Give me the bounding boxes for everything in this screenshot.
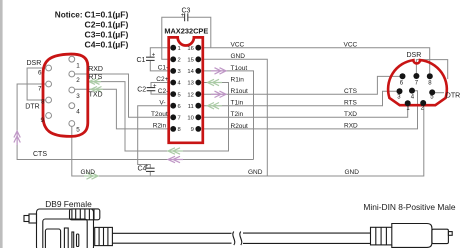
svg-text:RTS: RTS bbox=[88, 74, 102, 81]
svg-text:4: 4 bbox=[76, 109, 80, 116]
svg-text:+: + bbox=[152, 53, 156, 59]
svg-text:7: 7 bbox=[38, 86, 42, 93]
svg-text:9: 9 bbox=[41, 117, 45, 124]
svg-text:RTS: RTS bbox=[344, 99, 358, 106]
svg-text:12: 12 bbox=[187, 92, 193, 98]
svg-text:15: 15 bbox=[187, 58, 193, 64]
svg-text:3: 3 bbox=[76, 93, 80, 100]
svg-text:C2-: C2- bbox=[158, 88, 168, 95]
svg-text:RXD: RXD bbox=[88, 66, 103, 73]
svg-text:8: 8 bbox=[41, 99, 45, 106]
svg-text:Mini-DIN 8-Positive Male: Mini-DIN 8-Positive Male bbox=[363, 202, 455, 212]
svg-text:C4: C4 bbox=[138, 166, 147, 173]
svg-text:1: 1 bbox=[76, 63, 80, 70]
svg-text:C1-: C1- bbox=[158, 65, 168, 72]
svg-text:10: 10 bbox=[187, 116, 193, 122]
svg-text:C2=0.1(µF): C2=0.1(µF) bbox=[85, 20, 129, 30]
svg-text:C1: C1 bbox=[137, 57, 146, 64]
svg-text:6: 6 bbox=[38, 70, 42, 77]
svg-text:R2out: R2out bbox=[231, 123, 249, 130]
svg-text:VCC: VCC bbox=[231, 42, 245, 49]
svg-text:7: 7 bbox=[178, 116, 181, 122]
svg-text:VCC: VCC bbox=[344, 41, 358, 48]
svg-text:Notice:: Notice: bbox=[55, 11, 83, 20]
svg-text:11: 11 bbox=[188, 104, 194, 110]
svg-text:C3=0.1(µF): C3=0.1(µF) bbox=[85, 30, 129, 40]
svg-text:CTS: CTS bbox=[344, 88, 358, 95]
svg-text:C2+: C2+ bbox=[156, 76, 168, 83]
svg-text:DTR: DTR bbox=[25, 104, 39, 111]
svg-text:C4=0.1(µF): C4=0.1(µF) bbox=[85, 39, 129, 49]
svg-text:1: 1 bbox=[178, 46, 181, 52]
svg-text:TXD: TXD bbox=[344, 111, 357, 118]
svg-text:C1=0.1(µF): C1=0.1(µF) bbox=[85, 10, 129, 20]
svg-text:6: 6 bbox=[178, 104, 181, 110]
svg-text:C3: C3 bbox=[182, 7, 191, 14]
svg-text:RXD: RXD bbox=[344, 123, 358, 130]
svg-text:GND: GND bbox=[81, 169, 96, 176]
svg-text:R1in: R1in bbox=[231, 76, 245, 83]
svg-text:V-: V- bbox=[159, 99, 165, 106]
svg-text:5: 5 bbox=[76, 127, 80, 134]
svg-text:T2out: T2out bbox=[151, 111, 168, 118]
svg-text:CTS: CTS bbox=[33, 151, 47, 158]
svg-text:+: + bbox=[153, 83, 157, 89]
svg-text:DSR: DSR bbox=[407, 52, 422, 59]
svg-text:T1in: T1in bbox=[231, 100, 244, 107]
svg-text:R2in: R2in bbox=[153, 123, 167, 130]
svg-text:9: 9 bbox=[191, 127, 194, 133]
svg-text:3: 3 bbox=[178, 69, 181, 75]
svg-text:13: 13 bbox=[187, 81, 193, 87]
svg-text:16: 16 bbox=[187, 46, 193, 52]
svg-text:T1out: T1out bbox=[231, 65, 248, 72]
svg-text:DSR: DSR bbox=[27, 60, 42, 67]
svg-text:14: 14 bbox=[187, 69, 194, 75]
svg-text:TXD: TXD bbox=[89, 91, 103, 98]
svg-text:DTR: DTR bbox=[446, 93, 460, 100]
svg-text:5: 5 bbox=[178, 92, 181, 98]
svg-text:GND: GND bbox=[345, 169, 360, 176]
svg-text:DB9 Female: DB9 Female bbox=[45, 199, 92, 209]
svg-text:2: 2 bbox=[178, 58, 181, 64]
svg-text:C2: C2 bbox=[137, 87, 146, 94]
svg-text:8: 8 bbox=[178, 127, 181, 133]
svg-text:MAX232CPE: MAX232CPE bbox=[164, 26, 208, 35]
svg-text:R1out: R1out bbox=[231, 88, 249, 95]
svg-text:2: 2 bbox=[76, 77, 80, 84]
svg-text:T2in: T2in bbox=[231, 111, 244, 118]
svg-text:GND: GND bbox=[231, 53, 246, 60]
svg-text:GND: GND bbox=[248, 169, 263, 176]
